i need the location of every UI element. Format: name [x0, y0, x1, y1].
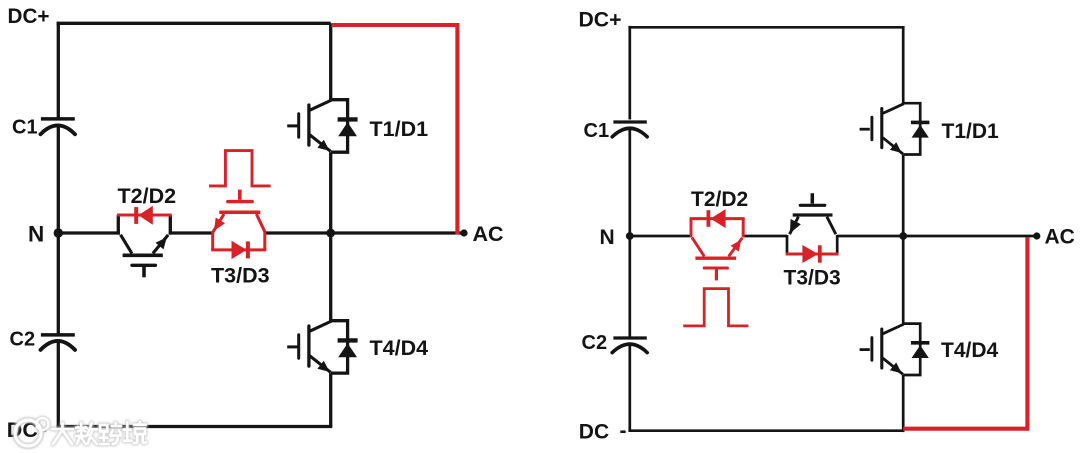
transistor T1 collector lead — [310, 100, 332, 110]
transistor T3 gate lead (up stem, red) — [238, 190, 242, 200]
transistor T3 (right) emitter arrow — [790, 219, 801, 233]
wire: T2 loop right vertical stub — [169, 215, 172, 235]
svg-text:T2/D2: T2/D2 — [118, 184, 177, 208]
transistor T4 emitter lead — [310, 356, 331, 373]
diode D4 (right) cathode bar — [911, 341, 929, 345]
transistor T1 emitter lead — [310, 135, 331, 152]
diode D2 triangle — [138, 206, 152, 225]
diode D4 cathode bar — [338, 338, 358, 342]
wire: left panel N node to T2 left corner — [58, 231, 120, 234]
transistor T1 (right) gate lead — [860, 128, 870, 131]
transistor T3 emitter lead (left leg, red) — [213, 214, 224, 232]
diode D4 triangle — [338, 343, 357, 357]
transistor T2 IGBT channel bar — [123, 254, 163, 258]
svg-text:C2: C2 — [582, 332, 608, 354]
transistor T2 gate bar — [132, 264, 155, 267]
transistor T4 gate lead — [287, 345, 297, 348]
wire: left panel T3 right corner to center-leg junction — [264, 231, 331, 234]
svg-text:DC: DC — [579, 421, 609, 444]
wire: right panel left rail, N node to C2 — [628, 236, 631, 337]
transistor T1 IGBT channel bar — [307, 105, 310, 145]
transistor T4 collector/emitter frame with diode branch — [331, 321, 348, 373]
transistor T2 (right) emitter arrow (red) — [731, 240, 742, 252]
svg-text:T3/D3: T3/D3 — [211, 264, 270, 288]
wire: left panel left rail, DC+ corner to C1 — [57, 22, 60, 118]
wire: right panel branch, top rail to T1 collector — [902, 27, 905, 103]
wire: right panel T3 right corner to center-leg junction — [837, 235, 903, 238]
node: right panel center-leg junction dot — [899, 232, 907, 240]
transistor T4 (right) emitter lead — [883, 358, 903, 374]
transistor T4 (right) gate lead — [860, 348, 870, 351]
wire: highlighted current path DC+ to AC (red), top rail and down to AC node — [332, 25, 458, 235]
transistor T4 (right) collector/emitter frame with diode branch — [903, 324, 920, 375]
transistor T1 gate bar — [297, 114, 300, 138]
diode D3 (right) lead (red bottom horizontal) — [786, 253, 839, 256]
watermark logo (bottom left) — [15, 418, 49, 446]
svg-text:T4/D4: T4/D4 — [370, 336, 429, 360]
transistor T1 (right) gate bar — [870, 117, 873, 140]
svg-text:AC: AC — [1045, 226, 1075, 249]
wire: left panel left rail, N node to C2 — [57, 233, 60, 334]
wire: T2 (right) loop right vertical (red) — [742, 219, 745, 238]
transistor T1 (right) collector/emitter frame with diode branch — [903, 103, 920, 154]
diode D3 lead (red bottom horizontal of T3 loop) — [211, 248, 266, 251]
svg-text:N: N — [600, 226, 615, 249]
diode D1 triangle — [338, 122, 357, 136]
wire: right panel left rail, C2 to DC- corner — [628, 344, 631, 430]
transistor T4 IGBT channel bar — [307, 326, 310, 366]
transistor T4 collector lead — [310, 321, 332, 331]
diode D4 (right) triangle — [912, 345, 929, 358]
transistor T2 (right) IGBT channel bar (red) — [695, 257, 736, 260]
capacitor C1 (right panel) plates — [612, 122, 647, 137]
transistor T1 gate lead — [287, 124, 297, 127]
diode D3 (right) triangle — [802, 245, 818, 263]
transistor T1 (right) IGBT channel bar — [880, 109, 883, 148]
transistor T3 IGBT channel bar (red) — [219, 210, 260, 214]
transistor T1 (right) emitter lead — [883, 138, 903, 154]
capacitor C1 (left panel) plates — [41, 119, 76, 134]
transistor T4 (right) collector lead — [883, 324, 904, 334]
wire: left panel left rail, C1 to N node — [57, 126, 60, 233]
svg-text:AC: AC — [473, 222, 504, 246]
transistor T2 collector lead (left leg) — [121, 235, 132, 254]
diode D2 lead (red horizontal of T2 loop) — [117, 214, 172, 217]
wire: left panel branch, mid-wire junction to T4 collector — [329, 233, 332, 321]
svg-text:DC+: DC+ — [579, 8, 622, 31]
svg-text:C1: C1 — [12, 117, 38, 139]
wire: left panel top DC+ rail (horizontal) — [57, 22, 331, 25]
wire: left panel branch, T1 emitter to mid-wire junction — [329, 152, 332, 233]
svg-text:T3/D3: T3/D3 — [784, 267, 841, 290]
diode D1 (right) cathode bar — [911, 121, 929, 125]
wire: left panel branch, top rail to T1 collector — [329, 23, 332, 99]
transistor T4 (right) gate bar — [870, 338, 873, 361]
transistor T1 (right) emitter arrow — [890, 142, 902, 153]
gate pulse waveform for T2 (right, red) — [683, 289, 748, 326]
transistor T4 gate bar — [297, 335, 300, 359]
wire: left panel junction to AC node — [331, 231, 464, 234]
diode D1 (right) triangle — [912, 125, 929, 138]
transistor T3 (right) collector lead (right leg) — [827, 217, 836, 235]
svg-text:-: - — [620, 420, 627, 443]
capacitor C2 (left panel) plates — [41, 335, 76, 350]
wire: right panel T2 right corner to T3 left corner — [743, 235, 787, 238]
wire: T3 loop right vertical (red) — [263, 232, 266, 250]
wire: left panel branch, T4 emitter to bottom rail — [329, 373, 332, 426]
wire: right panel left rail, DC+ corner to C1 — [628, 26, 631, 120]
transistor T3 (right) IGBT channel bar — [793, 213, 833, 216]
transistor T1 collector/emitter frame with diode branch — [331, 100, 348, 153]
diode D2 (right) lead (red horizontal) — [690, 217, 745, 220]
wire: T3 loop left vertical (red) — [211, 232, 214, 250]
transistor T2 emitter arrow — [156, 237, 167, 249]
svg-text:N: N — [28, 222, 44, 247]
wire: right panel top DC+ rail (horizontal) — [628, 26, 904, 29]
wire: T3 (right) loop right vertical — [836, 235, 839, 253]
transistor T2 (right) emitter lead (right leg, red) — [729, 238, 743, 257]
svg-text:T4/D4: T4/D4 — [941, 339, 999, 362]
wire: T2 (right) loop left vertical (red) — [690, 219, 693, 238]
wire: T3 (right) loop left vertical — [786, 235, 789, 253]
diode D3 cathode bar — [246, 241, 250, 258]
wire: right panel branch, mid-wire junction to T4 collector — [902, 236, 905, 324]
svg-text:C1: C1 — [584, 120, 610, 142]
wire: right panel junction to AC node — [903, 235, 1037, 238]
transistor T3 collector lead (right leg, red) — [256, 214, 265, 232]
transistor T2 (right) gate lead (down stem, red) — [715, 270, 718, 281]
diode D2 (right) cathode bar — [707, 210, 711, 227]
diode D2 cathode bar — [134, 207, 138, 224]
wire: left panel T2 right corner to T3 left corner — [169, 231, 214, 234]
transistor T2 (right) gate bar (red) — [704, 266, 727, 269]
node: left panel center-leg junction dot — [326, 229, 335, 238]
diode D2 (right) triangle — [711, 209, 726, 228]
node N (right panel) junction dot — [626, 232, 634, 240]
diode D1 cathode bar — [338, 117, 358, 121]
transistor T3 gate bar (red) — [228, 200, 252, 203]
wire: left panel left rail, C2 to DC- corner — [57, 342, 60, 427]
node AC (left panel) terminal dot — [460, 229, 467, 236]
transistor T2 (right) collector lead (left leg, red) — [692, 238, 704, 257]
transistor T3 emitter arrow (red) — [214, 218, 225, 231]
svg-text:T1/D1: T1/D1 — [370, 117, 429, 141]
diode D3 triangle — [232, 241, 247, 259]
svg-text:C2: C2 — [10, 329, 36, 351]
svg-text:T2/D2: T2/D2 — [691, 188, 748, 211]
wire: left panel bottom DC- rail (horizontal) — [57, 425, 333, 428]
wire: right panel bottom DC- rail (horizontal, black part) — [628, 429, 903, 432]
transistor T3 (right) gate bar — [800, 204, 825, 207]
transistor T3 (right) gate lead (up stem) — [811, 193, 815, 203]
node AC (right panel) terminal dot — [1033, 232, 1040, 239]
transistor T4 (right) IGBT channel bar — [880, 329, 883, 368]
transistor T2 gate lead (down stem) — [142, 267, 146, 277]
transistor T4 (right) emitter arrow — [890, 363, 902, 374]
transistor T2 emitter lead (right leg) — [153, 235, 168, 254]
node N (left panel) junction dot — [54, 228, 63, 237]
transistor T1 (right) collector lead — [883, 104, 904, 114]
transistor T4 emitter arrow — [317, 361, 329, 372]
wire: T2 loop left vertical stub — [117, 215, 120, 235]
transistor T3 (right) emitter lead (left leg) — [790, 217, 799, 235]
transistor T1 emitter arrow — [317, 140, 329, 151]
wire: right panel N node to T2 left corner — [630, 235, 691, 238]
gate pulse waveform for T3 (red) — [209, 151, 271, 186]
wire: right panel left rail, C1 to N node — [628, 129, 631, 236]
svg-text:DC+: DC+ — [8, 4, 50, 28]
diode D3 (right) cathode bar — [818, 245, 822, 262]
wire: highlighted current path AC to DC- (red), down right side and along bottom — [903, 238, 1027, 429]
wire: right panel branch, T4 emitter to bottom rail — [902, 375, 905, 432]
wire: right panel branch, T1 emitter to mid-wire junction — [902, 155, 905, 237]
capacitor C2 (right panel) plates — [612, 338, 647, 353]
svg-text:T1/D1: T1/D1 — [942, 120, 1000, 143]
